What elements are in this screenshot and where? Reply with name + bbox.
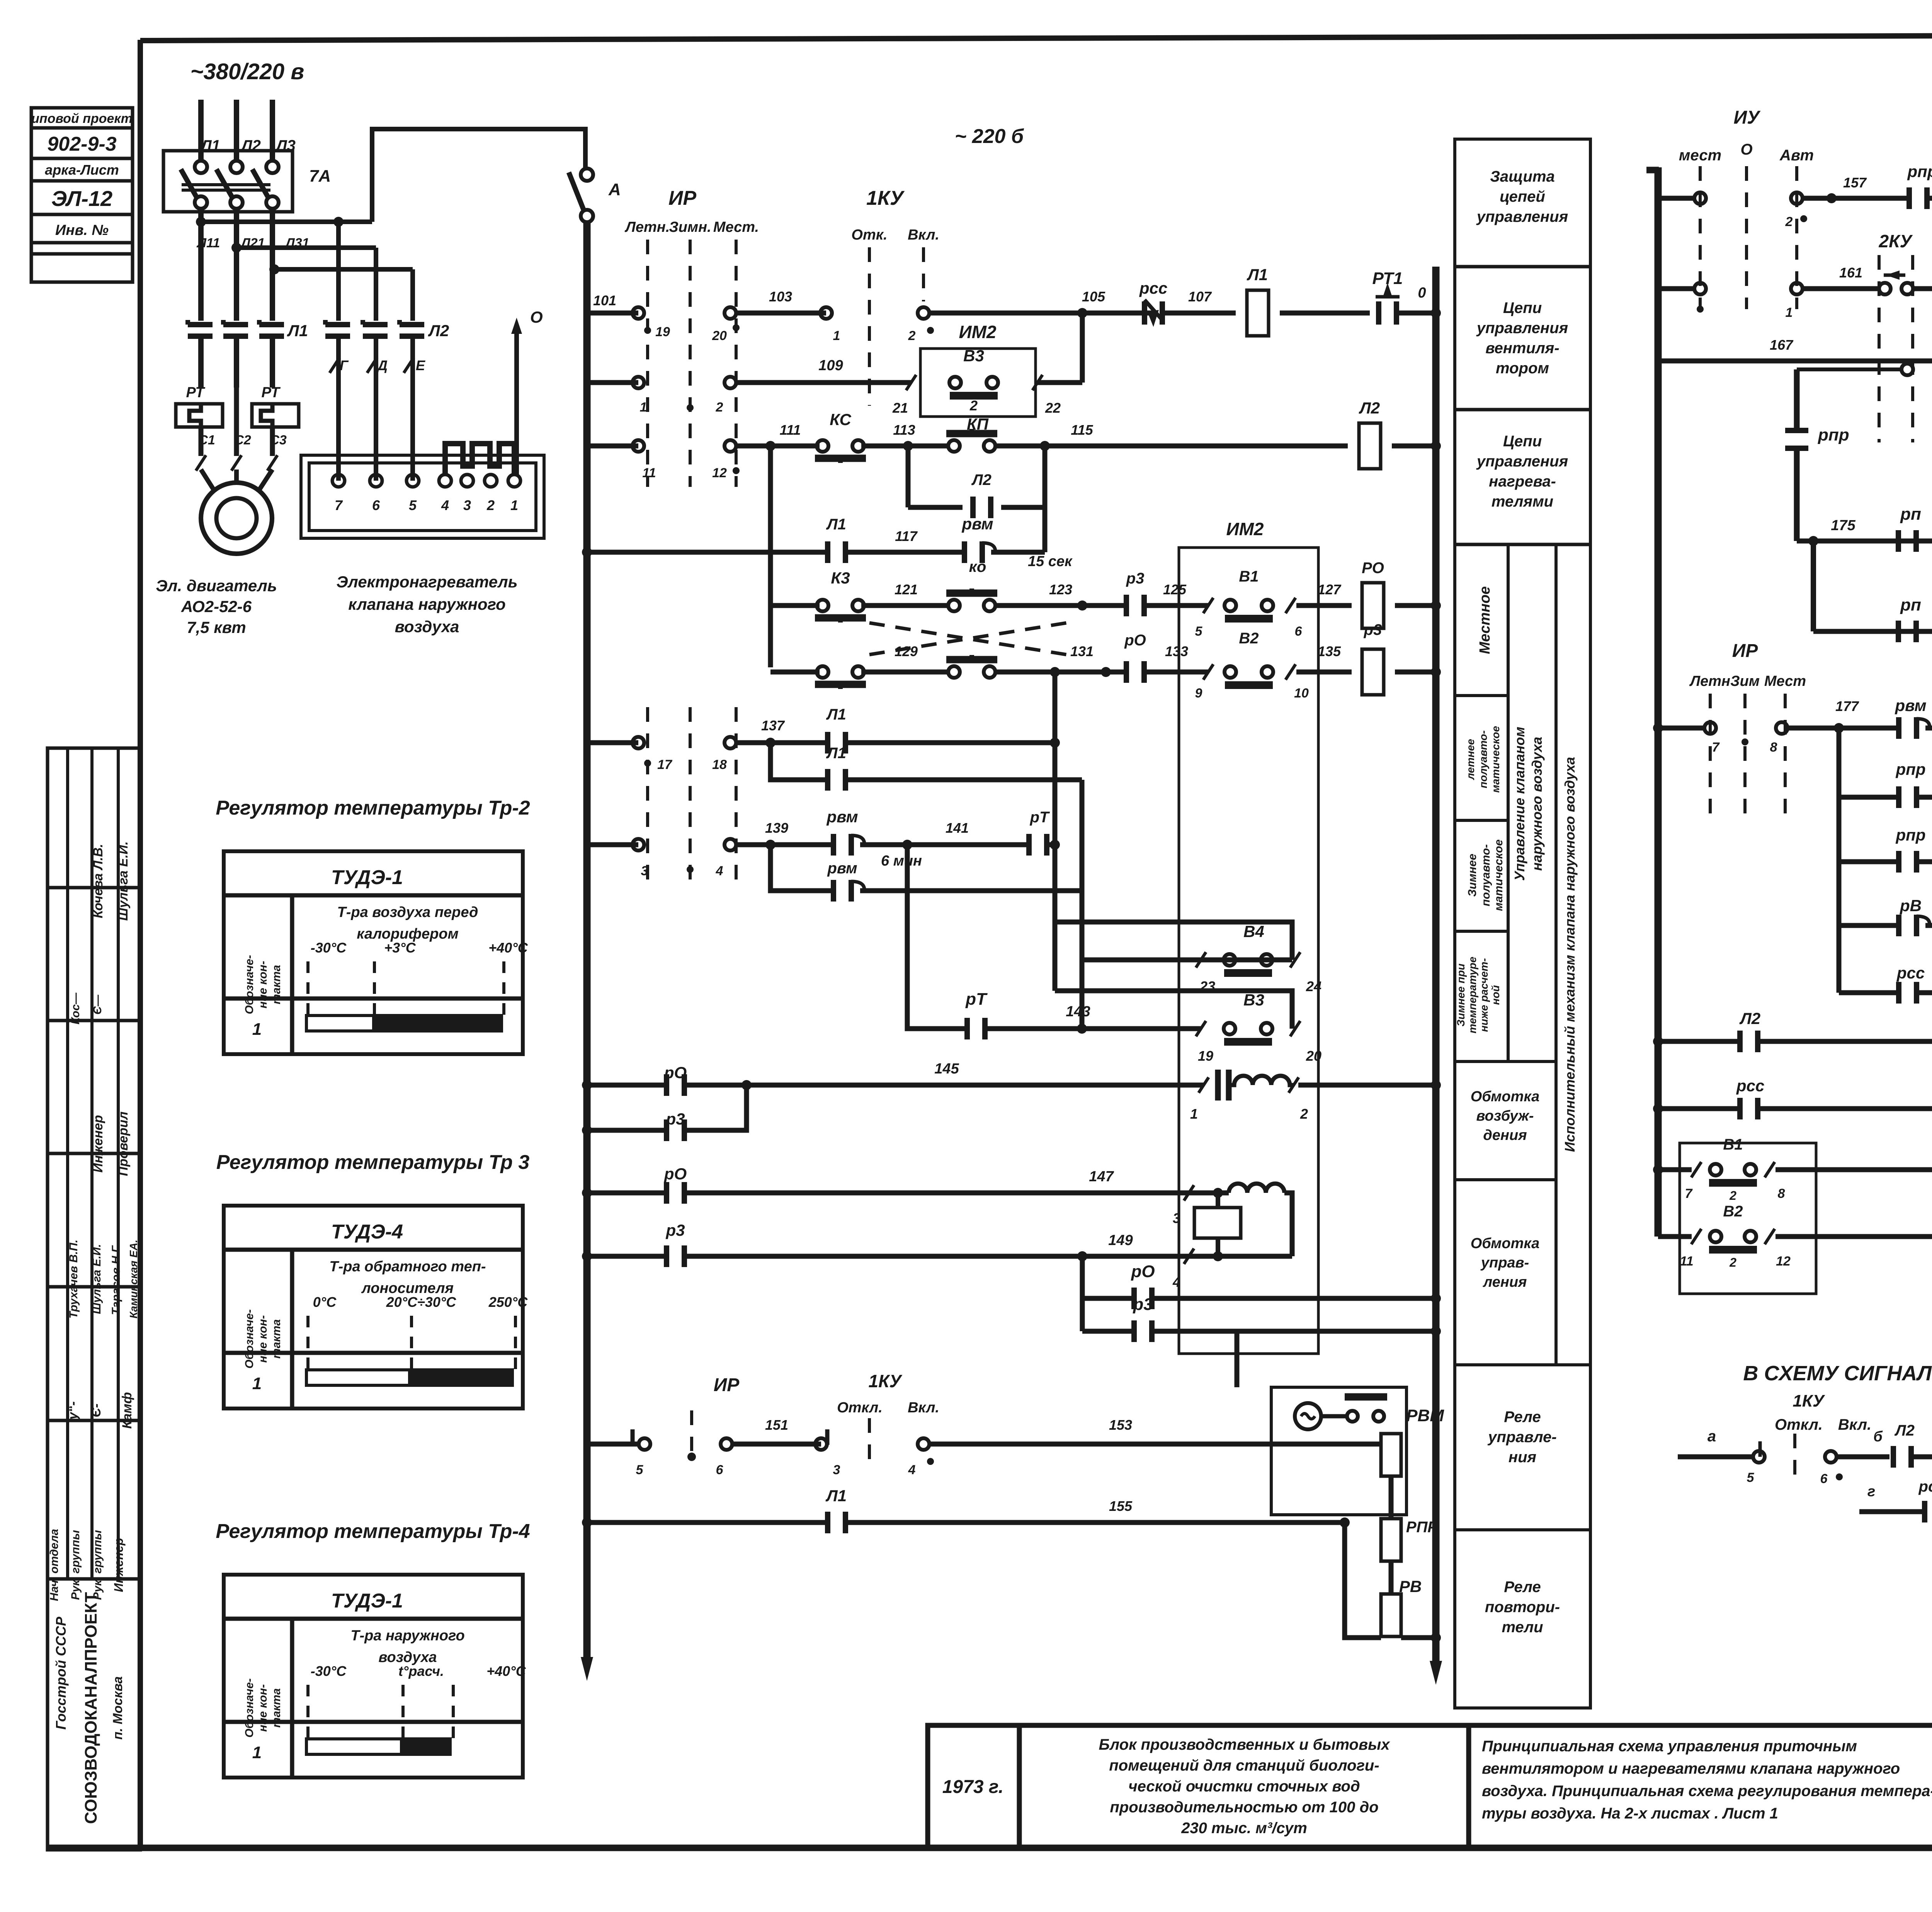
- svg-text:22: 22: [1045, 400, 1061, 416]
- slash 23 В4: [1196, 952, 1206, 968]
- svg-text:135: 135: [1318, 643, 1341, 659]
- svg-text:7: 7: [335, 497, 343, 513]
- function column row Обмотка управления bottom: [1455, 1363, 1590, 1366]
- svg-text:такта: такта: [270, 1319, 283, 1359]
- selector dashed Авт TR: [1795, 166, 1798, 309]
- svg-text:1: 1: [640, 400, 647, 415]
- table 2 scale dash 2: [410, 1316, 413, 1376]
- svg-text:Регулятор температуры Тр-4: Регулятор температуры Тр-4: [216, 1520, 530, 1543]
- junction 131: [1101, 667, 1111, 677]
- heater terminal 4: [439, 475, 451, 487]
- svg-text:7: 7: [1712, 740, 1720, 755]
- slash 6 В1: [1286, 598, 1296, 613]
- table 3 scale dash 1: [306, 1685, 310, 1745]
- wire 127: [1296, 603, 1352, 608]
- svg-text:рсс: рсс: [1896, 964, 1925, 982]
- title block rect: [928, 1725, 1932, 1848]
- junction 115 Л2 branch: [1040, 441, 1050, 451]
- wire 137 right: [846, 740, 1055, 745]
- svg-text:151: 151: [765, 1417, 788, 1433]
- wire 185: [1917, 859, 1932, 864]
- wire 177: [1788, 726, 1898, 731]
- slash 3 winding2: [1184, 1185, 1194, 1201]
- svg-text:у“-: у“-: [66, 1401, 80, 1420]
- svg-text:Регулятор температуры Тр 3: Регулятор температуры Тр 3: [216, 1151, 530, 1174]
- svg-text:7А: 7А: [309, 167, 331, 185]
- svg-text:КП: КП: [967, 415, 989, 433]
- svg-text:рсс: рсс: [1736, 1077, 1764, 1095]
- coil Р3 valve-close relay: [1362, 649, 1384, 695]
- svg-text:Рук. группы: Рук. группы: [69, 1530, 82, 1600]
- breaker crossbar: [182, 183, 270, 186]
- wire 139: [736, 842, 833, 847]
- svg-text:С2: С2: [234, 433, 251, 447]
- ИУ pos dot mest2: [1697, 306, 1704, 313]
- svg-text:Т-ра наружного: Т-ра наружного: [350, 1628, 464, 1644]
- junction 157: [1827, 193, 1837, 203]
- wire Р3 lower right: [1152, 1329, 1436, 1334]
- svg-text:4: 4: [716, 864, 723, 878]
- svg-text:Местное: Местное: [1477, 586, 1493, 654]
- slash С2: [231, 455, 241, 471]
- junction 155: [1340, 1517, 1350, 1528]
- svg-text:иповой проект: иповой проект: [31, 111, 133, 126]
- svg-text:145: 145: [934, 1061, 959, 1077]
- motor lead 1: [198, 336, 204, 388]
- svg-text:В3: В3: [1243, 991, 1264, 1009]
- svg-text:ние кон-: ние кон-: [257, 1684, 269, 1732]
- svg-text:141: 141: [946, 820, 969, 836]
- junction 149 branch: [1077, 1251, 1087, 1261]
- function column row Летнее bottom: [1455, 819, 1508, 822]
- cell Реле управления: [1487, 1408, 1556, 1466]
- table 2 contact state bar black: [410, 1368, 514, 1387]
- ИМ2 box rung109: [920, 349, 1036, 417]
- wire rung Л1-117: [587, 550, 827, 555]
- contact РП lower: [1898, 621, 1916, 642]
- svg-text:117: 117: [895, 528, 918, 544]
- open button КО lower: [946, 655, 997, 678]
- ИР pos dot 19: [644, 327, 651, 334]
- table 1 header line: [224, 893, 523, 898]
- wire РПР-183 rung: [1839, 795, 1898, 800]
- contactor Л1 pole 2: [223, 320, 248, 336]
- svg-text:рТ: рТ: [1030, 809, 1050, 826]
- wire rung139 stub: [587, 842, 638, 847]
- svg-text:Л1: Л1: [826, 745, 846, 762]
- Л2 bypass wire: [908, 505, 963, 510]
- svg-text:5: 5: [1195, 624, 1203, 639]
- svg-text:О: О: [1740, 141, 1752, 158]
- svg-text:РТ: РТ: [186, 384, 205, 401]
- svg-text:5: 5: [409, 497, 417, 513]
- cell Защита цепей управления: [1476, 168, 1568, 225]
- svg-text:3: 3: [463, 497, 471, 513]
- В4 rung wire: [1082, 958, 1292, 963]
- time contact РВ rung189: [1899, 915, 1930, 936]
- wire rung151 stub: [587, 1442, 638, 1447]
- right bus dot 177: [1653, 723, 1663, 733]
- wire РВМ coil bottom: [1389, 1476, 1394, 1519]
- svg-text:а: а: [1708, 1428, 1716, 1445]
- margin box row line 5: [31, 241, 133, 245]
- svg-text:б: б: [1873, 1429, 1883, 1445]
- svg-text:цепей: цепей: [1500, 188, 1545, 205]
- phase Л3 drop: [270, 100, 275, 162]
- svg-text:ТУДЭ-4: ТУДЭ-4: [331, 1221, 403, 1243]
- svg-text:1: 1: [1786, 305, 1793, 320]
- svg-text:2: 2: [969, 398, 978, 413]
- svg-text:6: 6: [1295, 624, 1303, 639]
- wire 109 to junction: [1037, 380, 1082, 385]
- junction РО lower bus: [1431, 1293, 1441, 1303]
- junction Л2 tap: [231, 243, 241, 253]
- margin box row line 1: [31, 126, 133, 130]
- wire to switch А: [372, 129, 585, 222]
- svg-text:1КУ: 1КУ: [1793, 1391, 1825, 1410]
- function column row line 2: [1455, 408, 1590, 412]
- table 1 contact state bar white: [306, 1016, 374, 1031]
- svg-text:Г: Г: [340, 357, 349, 373]
- signal pos dot 6: [1836, 1473, 1843, 1480]
- margin box row line 6: [31, 252, 133, 256]
- svg-text:СОЮЗВОДОКАНАЛПРОЕКТ: СОЮЗВОДОКАНАЛПРОЕКТ: [82, 1592, 100, 1824]
- svg-text:производительностью от 100: производительностью от 100 до: [1110, 1799, 1378, 1816]
- svg-text:рВ: рВ: [1900, 896, 1922, 915]
- svg-text:Є—: Є—: [91, 994, 104, 1015]
- wire 167: [1658, 359, 1932, 364]
- svg-text:Л2: Л2: [1894, 1422, 1915, 1439]
- svg-text:Реле: Реле: [1504, 1408, 1541, 1425]
- signature block row line 2: [48, 1019, 140, 1022]
- svg-text:1: 1: [252, 1374, 262, 1393]
- motor lead C3: [270, 427, 275, 456]
- junction rung H right: [1050, 840, 1060, 850]
- ИР pos dot зимн rung H: [687, 866, 694, 873]
- В4 loop top wire: [1055, 922, 1292, 960]
- title block divider 1973: [1017, 1725, 1022, 1848]
- thermal РТ2 box: [252, 404, 299, 427]
- svg-text:902-9-3: 902-9-3: [47, 133, 116, 155]
- wire 105: [929, 311, 1153, 316]
- svg-text:наружного воздуха: наружного воздуха: [1529, 737, 1545, 871]
- motor lead 3: [270, 336, 275, 388]
- svg-text:+40°С: +40°С: [488, 940, 528, 956]
- coil РВМ: [1381, 1434, 1401, 1476]
- svg-text:Цепи: Цепи: [1503, 433, 1542, 450]
- phase Л1 drop: [198, 100, 204, 162]
- selector dashed Мест: [735, 240, 738, 487]
- ИР bottom contact 5: [633, 1429, 650, 1450]
- Р3 branch under РО: [587, 1128, 666, 1133]
- svg-text:ТУДЭ-1: ТУДЭ-1: [331, 1590, 403, 1612]
- svg-text:рп: рп: [1900, 595, 1921, 614]
- svg-text:ИМ2: ИМ2: [959, 322, 997, 342]
- wire Л31 below breaker: [270, 212, 275, 321]
- svg-text:5: 5: [1747, 1470, 1755, 1485]
- wire 147: [685, 1191, 1229, 1196]
- wire РВМ to riser: [991, 550, 1045, 555]
- junction 137 branch: [765, 738, 776, 748]
- contact РП rung 175: [1898, 530, 1916, 552]
- heater lead Д: [374, 336, 378, 481]
- slash 19 В3: [1196, 1021, 1206, 1036]
- svg-text:В4: В4: [1243, 922, 1264, 941]
- 1КУ contact 1 terminal: [820, 307, 832, 319]
- svg-text:123: 123: [1049, 582, 1072, 597]
- svg-text:153: 153: [1109, 1417, 1132, 1433]
- coil РО valve-open relay: [1362, 583, 1384, 628]
- signature block column line 1: [66, 748, 69, 1579]
- cell Цепи управления нагревателями: [1476, 433, 1568, 510]
- svg-text:Л1: Л1: [826, 516, 846, 533]
- selector dashed Зимн: [689, 240, 692, 487]
- aux contact Л1 rung G2: [828, 769, 845, 791]
- junction 123: [1077, 600, 1087, 611]
- svg-text:2КУ: 2КУ: [1878, 231, 1913, 251]
- table 3 scale dash 2: [401, 1685, 405, 1745]
- limit switch В2: [1225, 666, 1273, 685]
- ИР pos dot 12: [733, 467, 740, 474]
- svg-text:155: 155: [1109, 1498, 1133, 1514]
- junction Р3 lower bus: [1431, 1326, 1441, 1336]
- svg-text:АО2-52-6: АО2-52-6: [181, 597, 252, 616]
- function column rect: [1455, 139, 1590, 1708]
- ИУ contact Авт terminal: [1791, 192, 1803, 204]
- svg-text:12: 12: [712, 466, 727, 480]
- svg-text:Рук. группы: Рук. группы: [91, 1530, 104, 1600]
- heater terminal 3: [461, 475, 473, 487]
- ИР contact 12 terminal: [724, 440, 736, 452]
- svg-text:туры воздуха. На 2-х листа: туры воздуха. На 2-х листах . Лист 1: [1482, 1805, 1778, 1822]
- svg-text:6: 6: [1820, 1471, 1828, 1486]
- 2КУ dashed right: [1911, 255, 1914, 442]
- svg-text:полуавто-: полуавто-: [1480, 844, 1492, 907]
- svg-text:ИР: ИР: [668, 187, 696, 209]
- svg-text:115: 115: [1071, 422, 1093, 438]
- phase slash Д: [367, 357, 377, 373]
- heater terminal 5: [406, 475, 419, 487]
- bus dot rung F right: [1431, 667, 1441, 677]
- signature block row line 1: [48, 886, 140, 890]
- phase slash Г: [330, 357, 340, 373]
- table 2 outline: [224, 1206, 523, 1408]
- signature block rect: [48, 748, 140, 1850]
- ИР contact 2 terminal: [724, 377, 736, 388]
- wire 125: [1145, 603, 1208, 608]
- svg-text:р3: р3: [1126, 570, 1145, 587]
- svg-text:Инженер: Инженер: [112, 1538, 126, 1592]
- feed riser Д: [374, 248, 378, 321]
- wire РПР-185 rung: [1839, 859, 1898, 864]
- drawing frame left border: [138, 40, 143, 1850]
- svg-text:рпр: рпр: [1907, 162, 1932, 180]
- ИР pos dot зимн rung B: [687, 404, 694, 411]
- svg-text:Авт: Авт: [1779, 147, 1814, 164]
- svg-text:управле-: управле-: [1487, 1429, 1556, 1446]
- Л2 bypass right riser: [1043, 446, 1048, 507]
- junction 139 branch: [765, 840, 776, 850]
- svg-text:Нач. отдела: Нач. отдела: [48, 1529, 61, 1601]
- svg-text:101: 101: [593, 293, 616, 308]
- svg-text:Откл.: Откл.: [837, 1400, 883, 1416]
- wire 193: [1917, 990, 1932, 995]
- table 1 outline: [224, 851, 523, 1054]
- svg-text:147: 147: [1089, 1169, 1114, 1185]
- svg-text:воздуха. Принципиальная схема: воздуха. Принципиальная схема регулирова…: [1482, 1783, 1932, 1800]
- signal wire а: [1678, 1454, 1753, 1460]
- svg-text:21: 21: [892, 400, 908, 416]
- branch РВМ2: [770, 845, 833, 891]
- wire 201: [1776, 1234, 1932, 1239]
- РВМ box contact: [1345, 1397, 1387, 1422]
- contactor Л1 pole 3: [259, 320, 284, 336]
- svg-text:2: 2: [1729, 1189, 1736, 1203]
- signature block column line 2: [90, 748, 94, 1579]
- svg-text:-30°С: -30°С: [311, 940, 347, 956]
- svg-text:О: О: [530, 308, 543, 326]
- svg-text:ние кон-: ние кон-: [257, 961, 269, 1008]
- selector dashed О TR: [1745, 166, 1748, 309]
- svg-text:~ 220 б: ~ 220 б: [955, 125, 1024, 148]
- svg-text:повтори-: повтори-: [1485, 1599, 1560, 1616]
- bus dot РВ return: [1431, 1633, 1441, 1643]
- heater inner box: [309, 463, 536, 531]
- thermal relay РТ element 1: [176, 404, 223, 427]
- contact РСС rung197: [1740, 1098, 1758, 1119]
- limit switch В1: [1225, 600, 1273, 619]
- limit switch В1 right: [1709, 1164, 1757, 1183]
- phase Л2 drop: [234, 100, 239, 162]
- slash С3: [267, 455, 277, 471]
- junction winding bus: [1431, 1080, 1441, 1090]
- svg-text:2: 2: [1729, 1255, 1736, 1269]
- selector dashed bottom: [690, 1410, 693, 1451]
- time contact РВМ right: [1899, 717, 1930, 739]
- branch 149 down: [1080, 1256, 1085, 1331]
- signature block row line 5: [48, 1419, 140, 1422]
- svg-text:+3°С: +3°С: [384, 940, 416, 956]
- signal contact РСС: [1925, 1501, 1932, 1522]
- control winding coil box: [1194, 1208, 1241, 1238]
- ИР right contact 7: [1704, 722, 1716, 734]
- В3 loop mid wire: [1055, 991, 1292, 1029]
- 1КУ pos dot 2: [927, 327, 934, 334]
- wire 183: [1917, 795, 1932, 800]
- riser РП rungs: [1811, 541, 1816, 631]
- selector dashed Вкл-hid: [922, 247, 925, 301]
- table 3 header line: [224, 1617, 523, 1621]
- wire 101 stub: [587, 311, 638, 316]
- svg-text:матическое: матическое: [1492, 839, 1505, 911]
- wire 189: [1925, 923, 1932, 928]
- aux contact Л2 bypass: [973, 497, 991, 518]
- svg-text:109: 109: [818, 357, 843, 374]
- 1КУ bottom contact 3: [815, 1429, 827, 1450]
- junction 145 branch: [742, 1080, 752, 1090]
- wire 163: [1913, 286, 1932, 291]
- thermal РТ1 box: [176, 404, 223, 427]
- svg-text:рп: рп: [1900, 505, 1921, 524]
- ИР contact 17 terminal: [633, 737, 644, 748]
- svg-text:2: 2: [1785, 214, 1793, 229]
- wire 115: [995, 444, 1348, 449]
- electric heater box: [301, 455, 544, 538]
- svg-text:ИР: ИР: [714, 1375, 740, 1395]
- wire 151: [733, 1442, 821, 1447]
- contact РПР rung183: [1899, 786, 1917, 808]
- signature block row line 6: [48, 1577, 140, 1581]
- slash 5 В1: [1203, 598, 1213, 613]
- contact РПР rung 157: [1909, 187, 1927, 209]
- table 3 scale dash 3: [452, 1685, 455, 1745]
- svg-text:111: 111: [780, 422, 801, 438]
- ИУ contact мест terminal: [1694, 192, 1706, 204]
- svg-text:175: 175: [1831, 517, 1855, 534]
- svg-text:рвм: рвм: [827, 860, 857, 877]
- wire rung РО-145 stub: [587, 1083, 666, 1088]
- bus dot rung C right: [1431, 441, 1441, 451]
- svg-text:0°С: 0°С: [313, 1294, 337, 1310]
- tap from phase Л1 to riser Г: [201, 219, 372, 224]
- cell Реле повторители: [1485, 1579, 1560, 1636]
- contact Р3 rung K2: [667, 1119, 684, 1141]
- table 1 scale dash 3: [502, 961, 505, 1021]
- margin box outline: [31, 108, 133, 282]
- svg-text:Е: Е: [416, 357, 425, 373]
- svg-text:6 мин: 6 мин: [881, 853, 922, 869]
- contact РТ rung J: [967, 1018, 985, 1039]
- wire 179: [1925, 726, 1932, 731]
- svg-text:А: А: [608, 180, 621, 199]
- svg-text:тором: тором: [1496, 360, 1549, 377]
- svg-text:Госстрой СССР: Госстрой СССР: [53, 1616, 69, 1730]
- ИУ contact Авт2 terminal: [1791, 283, 1803, 294]
- svg-text:полуавто-: полуавто-: [1477, 730, 1489, 788]
- svg-text:Проверил: Проверил: [116, 1111, 131, 1176]
- svg-text:107: 107: [1188, 289, 1212, 304]
- svg-text:Камф: Камф: [120, 1392, 134, 1429]
- svg-text:Є-: Є-: [89, 1403, 104, 1417]
- time contact РВМ seal: [833, 880, 864, 902]
- wire РПР to РВ: [1389, 1561, 1394, 1594]
- svg-text:Трухачев В.П.: Трухачев В.П.: [67, 1240, 80, 1319]
- selector dashed мест TR: [1699, 166, 1702, 309]
- thermal contact РТ1: [1376, 283, 1400, 325]
- heater terminal 2: [485, 475, 497, 487]
- 2КУ terminal b: [1901, 283, 1913, 294]
- phase slash Е: [404, 357, 414, 373]
- svg-text:п. Москва: п. Москва: [111, 1676, 125, 1740]
- svg-text:+40°С: +40°С: [486, 1663, 526, 1679]
- contact Р3 rung E: [1126, 595, 1144, 616]
- riser 131 to В4 loop: [1053, 672, 1058, 991]
- drawing frame bottom border: [46, 1845, 1932, 1851]
- junction 111 branch: [765, 441, 776, 451]
- ИР right dot: [1742, 738, 1748, 745]
- wire Л2 coil to bus: [1392, 444, 1436, 449]
- ИУ contact мест2 terminal: [1694, 283, 1706, 294]
- contactor Л2 pole 2: [363, 320, 388, 336]
- ИР right contact 8: [1776, 722, 1787, 734]
- svg-text:вентилятором и нагревателями: вентилятором и нагревателями клапана нар…: [1482, 1760, 1900, 1777]
- svg-text:Зим: Зим: [1730, 673, 1760, 689]
- svg-text:167: 167: [1770, 337, 1794, 353]
- wire 137: [736, 740, 827, 745]
- slash 7 В1 right: [1691, 1162, 1701, 1177]
- contact РПР on riser: [1785, 369, 1808, 541]
- signal dashed Откл: [1793, 1434, 1796, 1480]
